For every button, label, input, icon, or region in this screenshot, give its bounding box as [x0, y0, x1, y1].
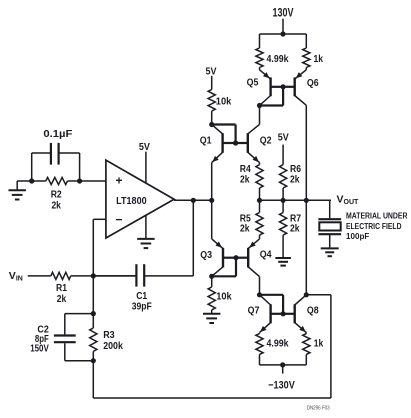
label R2 2k [51, 189, 62, 212]
ground [137, 239, 154, 248]
label 4.99k top [267, 53, 289, 65]
svg-text:1k: 1k [314, 337, 324, 349]
label 1k top [314, 53, 324, 65]
label R7 2k [290, 212, 301, 234]
wire [71, 275, 137, 277]
transistor Q1 [212, 125, 236, 163]
wire Q4-collector [259, 277, 261, 295]
label MATERIAL UNDER [346, 212, 408, 221]
ground [203, 314, 220, 323]
label R3 200k [103, 329, 123, 352]
svg-text:ELECTRIC FIELD: ELECTRIC FIELD [346, 222, 402, 231]
label 5V 10k [206, 65, 217, 77]
svg-text:Q4: Q4 [260, 248, 272, 260]
wire feedback-tap [306, 294, 331, 296]
label Q2 [260, 134, 272, 146]
op-amp U1 LT1800 [106, 160, 174, 238]
label ELECTRIC FIELD [346, 222, 402, 231]
transistor Q8 [283, 295, 306, 333]
resistor R6 [280, 145, 287, 201]
node [257, 198, 262, 203]
svg-text:130V: 130V [273, 7, 294, 19]
label 100pF [346, 232, 369, 241]
resistor R1 [51, 272, 71, 279]
svg-text:Q7: Q7 [248, 305, 260, 317]
resistor R4 [256, 163, 263, 201]
label 10k bottom [216, 290, 232, 302]
label R5 2k [240, 212, 251, 234]
svg-text:Q3: Q3 [200, 249, 212, 261]
transistor Q4 [236, 239, 260, 277]
wire Q1-base-tie [212, 125, 236, 144]
svg-text:2k: 2k [290, 223, 300, 235]
label Q8 [307, 305, 319, 317]
resistor 10k top [208, 76, 215, 125]
svg-text:5V: 5V [139, 141, 150, 153]
wire [17, 180, 46, 182]
wire output [174, 199, 212, 201]
label 5V opamp [139, 141, 150, 153]
svg-text:Q5: Q5 [247, 77, 259, 89]
ground [275, 258, 291, 266]
wire feedback-bottom [93, 295, 331, 398]
label 130V [273, 7, 294, 19]
label C1 39pF [132, 290, 152, 313]
node [281, 311, 286, 316]
wire mid-line [260, 199, 331, 201]
label plus [116, 173, 123, 187]
label minus [116, 213, 123, 227]
label LT1800 [116, 195, 147, 207]
label Q5 [247, 77, 259, 89]
svg-text:MATERIAL UNDER: MATERIAL UNDER [346, 212, 408, 221]
node [233, 255, 238, 260]
wire 130V [260, 19, 307, 34]
node [280, 31, 285, 36]
wire -130V [260, 365, 307, 374]
wire inverting-input [93, 219, 106, 276]
label 5V R6 [278, 131, 289, 143]
node VIN-node [91, 273, 96, 278]
svg-text:2k: 2k [240, 174, 250, 186]
transistor Q6 [283, 70, 306, 106]
label DN296 F03 [307, 406, 330, 412]
label VIN [9, 270, 23, 283]
svg-text:Q8: Q8 [307, 305, 319, 317]
label Q3 [200, 249, 212, 261]
wire gnd-opamp [145, 215, 147, 238]
svg-text:10k: 10k [216, 95, 232, 107]
wire VOUT-rail [305, 105, 307, 294]
svg-text:200k: 200k [103, 340, 123, 352]
wire 5V-opamp [145, 152, 147, 184]
transistor Q7 [260, 295, 284, 333]
wire [65, 313, 94, 315]
svg-text:DN296 F03: DN296 F03 [307, 406, 330, 412]
resistor R2 [46, 177, 68, 184]
svg-text:5V: 5V [206, 65, 217, 77]
resistor 1k top [303, 34, 310, 70]
label Q4 [260, 248, 272, 260]
resistor 4.99k bottom [256, 333, 263, 365]
wire Q1-Q3-rail [211, 163, 213, 239]
svg-text:Q6: Q6 [307, 77, 319, 89]
node [91, 358, 96, 363]
node [280, 362, 285, 367]
resistor 4.99k top [256, 34, 263, 70]
resistor R3 [90, 314, 97, 361]
svg-text:5V: 5V [278, 131, 289, 143]
node [233, 140, 238, 145]
label 1k bottom [314, 337, 324, 349]
label R4 2k [240, 163, 251, 185]
resistor 10k bottom [208, 276, 215, 313]
resistor R5 [256, 200, 263, 239]
svg-text:2k: 2k [51, 200, 61, 212]
svg-text:2k: 2k [57, 293, 67, 305]
resistor 1k bottom [303, 333, 310, 365]
node [29, 178, 34, 183]
transistor Q5 [260, 70, 284, 106]
svg-text:1k: 1k [314, 53, 324, 65]
wire sensor-lead [329, 200, 331, 218]
svg-text:10k: 10k [216, 290, 232, 302]
ground [9, 181, 26, 200]
node [281, 84, 286, 89]
wire Q2-collector [259, 106, 261, 125]
label R6 2k [290, 163, 301, 185]
svg-text:Q1: Q1 [200, 134, 212, 146]
svg-text:4.99k: 4.99k [267, 337, 289, 349]
wire Q3-base-tie [212, 258, 236, 277]
label -130V [268, 380, 295, 392]
svg-text:0.1µF: 0.1µF [43, 128, 73, 140]
label Q7 [248, 305, 260, 317]
svg-text:2k: 2k [240, 223, 250, 235]
node [257, 103, 262, 108]
label C2 8pF 150V [30, 325, 49, 355]
label VOUT [337, 194, 360, 207]
node [77, 178, 82, 183]
wire VOUT [306, 199, 331, 201]
transistor Q2 [236, 124, 260, 162]
label 10k top [216, 95, 232, 107]
node [91, 311, 96, 316]
node [191, 198, 196, 203]
svg-text:−130V: −130V [268, 380, 295, 392]
capacitor C2 [54, 314, 76, 361]
node [257, 292, 262, 297]
svg-text:39pF: 39pF [132, 301, 152, 313]
label 0.1uF [43, 128, 73, 140]
capacitor C1 [93, 264, 193, 286]
wire [92, 276, 94, 314]
svg-text:−: − [116, 213, 123, 227]
svg-text:2k: 2k [290, 174, 300, 186]
wire [65, 360, 94, 362]
label 4.99k bottom [267, 337, 289, 349]
wire feedback-up [192, 200, 194, 276]
svg-text:Q2: Q2 [260, 134, 272, 146]
wire [68, 180, 106, 182]
wire Q7-base-tie [260, 295, 284, 314]
label Q1 [200, 134, 212, 146]
transistor Q3 [212, 239, 236, 276]
capacitor 0.1uF [32, 143, 80, 181]
svg-text:100pF: 100pF [346, 232, 369, 241]
node [304, 292, 309, 297]
wire Q5-base-tie [260, 87, 284, 106]
node VOUT-node [304, 198, 309, 203]
node [281, 198, 286, 203]
svg-text:+: + [116, 173, 123, 187]
wire [28, 275, 51, 277]
capacitor sensor 100pF [318, 219, 341, 248]
ground sensor [321, 248, 339, 256]
node [209, 198, 214, 203]
node [209, 274, 214, 279]
label R1 2k [56, 282, 67, 305]
resistor R7 [280, 200, 287, 257]
svg-text:150V: 150V [30, 343, 49, 354]
label Q6 [307, 77, 319, 89]
node [209, 122, 214, 127]
svg-text:LT1800: LT1800 [116, 195, 147, 207]
svg-text:4.99k: 4.99k [267, 53, 289, 65]
